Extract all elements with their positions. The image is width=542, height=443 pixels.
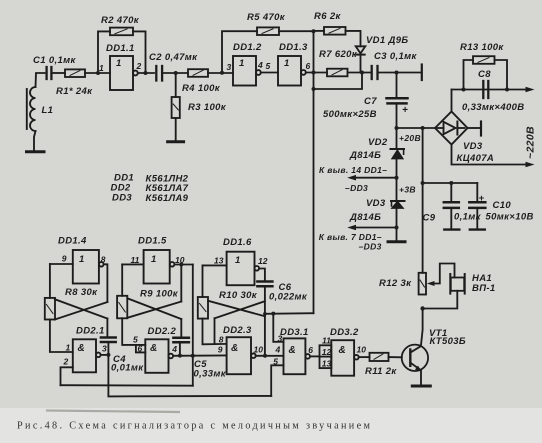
diode VD1 xyxy=(356,46,366,72)
wire xyxy=(396,228,398,241)
node R5/R6 junction xyxy=(312,29,316,33)
node DD3.1 pin4 junction xyxy=(263,354,267,358)
inverter DD1.5 xyxy=(144,250,175,284)
wire DD2.3 out to DD3.1 pin4 xyxy=(256,355,284,357)
resistor R11 xyxy=(359,353,402,361)
zener diode VD3 xyxy=(391,178,405,228)
svg-text:12: 12 xyxy=(322,347,332,357)
wire AC line bottom with arrow xyxy=(452,145,535,168)
svg-text:0,1мк: 0,1мк xyxy=(454,212,482,223)
svg-text:0,33мк×400В: 0,33мк×400В xyxy=(462,102,524,113)
inverter DD1.3 xyxy=(278,56,306,86)
svg-text:3: 3 xyxy=(278,334,283,344)
wire xyxy=(104,264,108,302)
svg-text:10: 10 xyxy=(357,345,367,355)
svg-text:0,33мк: 0,33мк xyxy=(194,369,227,380)
svg-text:13: 13 xyxy=(322,359,332,369)
node bridge+ junction xyxy=(421,126,425,130)
svg-text:КТ503Б: КТ503Б xyxy=(430,336,466,347)
svg-text:DD1.3: DD1.3 xyxy=(279,42,308,53)
svg-text:8: 8 xyxy=(219,335,224,345)
svg-text:VD3: VD3 xyxy=(463,141,483,152)
buzzer HA1 xyxy=(423,274,465,309)
svg-text:11: 11 xyxy=(322,336,331,346)
svg-text:ВП-1: ВП-1 xyxy=(472,283,496,294)
zener diode VD2 xyxy=(391,128,405,178)
svg-text:R3 100к: R3 100к xyxy=(188,102,227,113)
svg-text:R8 30к: R8 30к xyxy=(65,287,98,298)
wire xyxy=(259,269,265,281)
ground (L1) xyxy=(27,150,45,153)
wire xyxy=(85,72,110,74)
svg-text:~220В: ~220В xyxy=(525,126,537,159)
svg-text:С3 0,1мк: С3 0,1мк xyxy=(374,51,417,62)
svg-text:1: 1 xyxy=(116,58,122,69)
svg-text:1: 1 xyxy=(151,254,157,265)
wire xyxy=(261,72,278,74)
svg-text:+20В: +20В xyxy=(399,133,421,143)
resistor R2 xyxy=(98,28,146,73)
wire pin5 of DD3.1 xyxy=(271,365,283,396)
svg-text:1: 1 xyxy=(239,58,245,69)
wire pin jumper DD2.2 xyxy=(136,345,145,353)
svg-text:DD1.5: DD1.5 xyxy=(138,236,167,247)
svg-text:DD3: DD3 xyxy=(112,193,132,204)
wire xyxy=(310,355,320,357)
NAND gate DD2.3 xyxy=(227,337,256,374)
svg-text:1: 1 xyxy=(79,254,85,265)
node +20V rail xyxy=(397,127,436,129)
svg-text:С1 0,1мк: С1 0,1мк xyxy=(33,55,76,66)
svg-text:6: 6 xyxy=(308,345,313,355)
svg-text:R13 100к: R13 100к xyxy=(460,42,504,53)
capacitor C2 xyxy=(156,66,162,81)
resistor R8 xyxy=(45,264,73,352)
resistor R6 xyxy=(314,27,361,46)
resistor R13 xyxy=(464,56,508,89)
svg-text:R2 470к: R2 470к xyxy=(101,15,140,26)
capacitor C6 xyxy=(257,282,272,356)
svg-text:КЦ407А: КЦ407А xyxy=(457,153,495,164)
transistor VT1 xyxy=(402,345,428,385)
svg-text:4: 4 xyxy=(257,60,263,70)
ground (R3) xyxy=(168,140,184,143)
svg-text:+: + xyxy=(402,105,408,116)
resistor R4 xyxy=(188,69,208,77)
wire xyxy=(306,72,327,74)
svg-text:6: 6 xyxy=(138,344,143,354)
wire long drop DD1.5 out xyxy=(192,265,194,386)
NAND gate DD2.2 xyxy=(145,339,173,373)
svg-text:13: 13 xyxy=(214,256,224,266)
wire arrow to pin 14 xyxy=(347,175,396,181)
svg-text:0,01мк: 0,01мк xyxy=(111,363,144,374)
wire DD2.2 out to DD2.3 pin9 xyxy=(173,354,227,356)
svg-text:VD1 Д9Б: VD1 Д9Б xyxy=(366,35,408,46)
svg-text:R11 2к: R11 2к xyxy=(365,366,397,377)
wire xyxy=(203,264,227,266)
node DD1.2 input junction xyxy=(220,71,224,75)
svg-text:R6 2к: R6 2к xyxy=(314,11,341,22)
svg-text:VD2: VD2 xyxy=(368,137,388,148)
capacitor C7 xyxy=(387,73,408,129)
wire xyxy=(162,72,188,74)
svg-text:3: 3 xyxy=(102,344,107,354)
terminal bar (bridge right) xyxy=(468,122,482,136)
node C3/C7 junction xyxy=(395,71,399,75)
svg-text:DD1.2: DD1.2 xyxy=(233,42,262,53)
capacitor C10 xyxy=(469,183,485,230)
svg-text:1: 1 xyxy=(66,343,71,353)
svg-text:VD3: VD3 xyxy=(366,198,386,209)
resistor R10 xyxy=(198,265,227,344)
svg-text:&: & xyxy=(231,343,239,354)
svg-text:12: 12 xyxy=(258,256,268,266)
svg-text:1: 1 xyxy=(235,255,241,266)
node pin14 supply junction xyxy=(395,176,399,180)
node filter rail junction xyxy=(421,181,425,185)
capacitor C8 xyxy=(483,81,488,98)
node +20V junction xyxy=(395,126,399,130)
node DD1.1 input junction xyxy=(96,71,100,75)
svg-text:DD3.1: DD3.1 xyxy=(280,327,309,338)
wire xyxy=(208,72,233,74)
svg-text:DD1.1: DD1.1 xyxy=(106,43,135,54)
svg-text:6: 6 xyxy=(306,61,311,71)
svg-text:10: 10 xyxy=(254,345,264,355)
svg-text:Рис.48. Схема сигнализатора с: Рис.48. Схема сигнализатора с мелодичным… xyxy=(17,421,372,432)
terminal bar xyxy=(421,65,423,81)
wire xyxy=(378,72,422,74)
svg-text:11: 11 xyxy=(131,255,140,265)
wire rail from DD1.5 output xyxy=(61,384,193,387)
node cell2 cross junction xyxy=(179,263,183,267)
wiper wire of R12 xyxy=(427,264,455,287)
svg-text:DD3.2: DD3.2 xyxy=(330,327,359,338)
resistor R5 xyxy=(222,27,314,72)
svg-text:R4 100к: R4 100к xyxy=(182,83,221,94)
node pin6 tone junction xyxy=(312,71,316,75)
cross wires cell 2 xyxy=(127,265,181,320)
node HA1/R12 junction xyxy=(420,306,424,310)
wire xyxy=(122,263,143,265)
svg-text:DD2.2: DD2.2 xyxy=(148,326,177,337)
svg-text:L1: L1 xyxy=(42,105,54,116)
artifact line xyxy=(46,411,180,413)
wire pin3 drop xyxy=(273,314,283,342)
wire xyxy=(51,72,65,74)
wire xyxy=(101,354,109,356)
ground (VT1) xyxy=(412,385,430,388)
svg-text:&: & xyxy=(289,345,297,356)
node R3/R4 junction xyxy=(174,71,178,75)
svg-text:С7: С7 xyxy=(364,96,377,107)
svg-text:R5 470к: R5 470к xyxy=(247,12,286,23)
svg-text:9: 9 xyxy=(218,344,223,354)
svg-text:DD1.6: DD1.6 xyxy=(223,237,252,248)
svg-text:Д814Б: Д814Б xyxy=(349,150,381,161)
svg-text:5: 5 xyxy=(273,357,278,367)
node C5 junction xyxy=(178,354,182,358)
resistor R1 xyxy=(65,69,85,77)
ground (supply) xyxy=(388,240,405,243)
wire xyxy=(50,263,73,265)
node DD2.1 output junction xyxy=(106,353,110,357)
node R13 right junction xyxy=(505,88,509,92)
resistor R9 xyxy=(117,264,145,345)
svg-text:Д814Б: Д814Б xyxy=(349,212,381,223)
wire xyxy=(313,31,315,72)
inductor L1 xyxy=(27,73,45,151)
wire xyxy=(174,264,192,266)
svg-text:50мк×10В: 50мк×10В xyxy=(486,212,534,223)
svg-text:0,022мк: 0,022мк xyxy=(269,292,308,303)
svg-text:1: 1 xyxy=(284,58,290,69)
resistor R7 xyxy=(327,69,371,77)
svg-text:R1* 24к: R1* 24к xyxy=(56,86,93,97)
svg-text:К выв. 7 DD1–: К выв. 7 DD1– xyxy=(319,232,382,242)
wire xyxy=(138,72,154,74)
svg-text:+3В: +3В xyxy=(399,185,416,195)
node R13 left junction xyxy=(462,88,466,92)
svg-text:–DD3: –DD3 xyxy=(359,242,382,252)
wire rail to DD3.1 pin5 xyxy=(108,355,271,397)
svg-text:500мк×25В: 500мк×25В xyxy=(323,109,377,120)
node DD1.1 output junction xyxy=(144,71,148,75)
svg-text:С10: С10 xyxy=(493,200,512,211)
svg-text:+: + xyxy=(479,193,485,204)
op-amp element DD1.1 xyxy=(110,56,138,90)
capacitor C4 xyxy=(101,319,116,355)
capacitor C5 xyxy=(173,319,189,356)
svg-text:4: 4 xyxy=(275,345,281,355)
svg-text:С2 0,47мк: С2 0,47мк xyxy=(149,52,198,63)
svg-text:&: & xyxy=(78,343,86,354)
NAND gate DD3.1 xyxy=(284,338,311,374)
wire loop below pin 6 node xyxy=(314,73,363,90)
svg-text:R10 30к: R10 30к xyxy=(219,290,258,301)
svg-text:10: 10 xyxy=(175,255,185,265)
wire cap rail xyxy=(423,182,478,184)
svg-text:2: 2 xyxy=(136,61,142,71)
capacitor C1 xyxy=(47,67,52,79)
svg-text:К561ЛА9: К561ЛА9 xyxy=(146,193,189,204)
pin table 12/13 of DD3.2 xyxy=(320,345,332,368)
svg-text:К выв. 14 DD1–: К выв. 14 DD1– xyxy=(319,165,387,175)
wire tone line to DD3.1 xyxy=(265,312,314,315)
cross wires cell 3 xyxy=(208,301,265,344)
NAND gate DD2.1 xyxy=(73,339,101,372)
wire pin2 of DD2.1 xyxy=(61,367,73,385)
node tone loop junction xyxy=(312,87,316,91)
svg-text:8: 8 xyxy=(101,255,106,265)
capacitor C3 xyxy=(372,66,378,79)
svg-text:5: 5 xyxy=(266,61,271,71)
svg-text:3: 3 xyxy=(227,62,232,72)
capacitor C9 xyxy=(444,183,460,230)
wire collector xyxy=(421,309,423,347)
resistor R3 xyxy=(172,73,180,141)
node pin7 supply junction xyxy=(395,226,399,230)
wire long vertical from tone node xyxy=(313,89,315,313)
svg-text:–DD3: –DD3 xyxy=(345,183,368,193)
NAND gate DD3.2 xyxy=(331,340,358,376)
wire AC line top with arrow xyxy=(452,87,535,93)
svg-text:&: & xyxy=(339,345,347,356)
resistor R12 (trimmer) xyxy=(419,273,426,295)
bridge rectifier VD3 xyxy=(435,112,468,145)
wire +20V down rail xyxy=(422,128,424,273)
svg-text:DD2.1: DD2.1 xyxy=(76,326,105,337)
svg-text:R9 100к: R9 100к xyxy=(140,289,179,300)
node VD1/R7 junction xyxy=(360,71,364,75)
node C9 junction xyxy=(449,181,453,185)
svg-text:9: 9 xyxy=(62,254,67,264)
svg-text:DD2.3: DD2.3 xyxy=(223,325,252,336)
wire bridge top xyxy=(451,90,453,112)
svg-text:С9: С9 xyxy=(423,213,436,224)
node C6 junction xyxy=(263,312,267,316)
svg-text:1: 1 xyxy=(99,63,104,73)
svg-text:2: 2 xyxy=(63,357,69,367)
svg-text:R12 3к: R12 3к xyxy=(379,278,412,289)
inverter DD1.4 xyxy=(73,250,104,284)
wire arrow to pin 7 xyxy=(347,225,396,231)
svg-text:&: & xyxy=(150,343,158,354)
node chain wire crossing xyxy=(191,354,195,358)
svg-text:R7 620к: R7 620к xyxy=(319,49,358,60)
svg-text:С8: С8 xyxy=(478,69,491,80)
node DD3.1 pin3 junction xyxy=(271,312,275,316)
cross wires cell 1 xyxy=(55,299,108,319)
inverter DD1.2 xyxy=(233,56,261,86)
svg-text:4: 4 xyxy=(171,344,177,354)
inverter DD1.6 xyxy=(227,252,259,286)
svg-text:DD1.4: DD1.4 xyxy=(58,236,87,247)
